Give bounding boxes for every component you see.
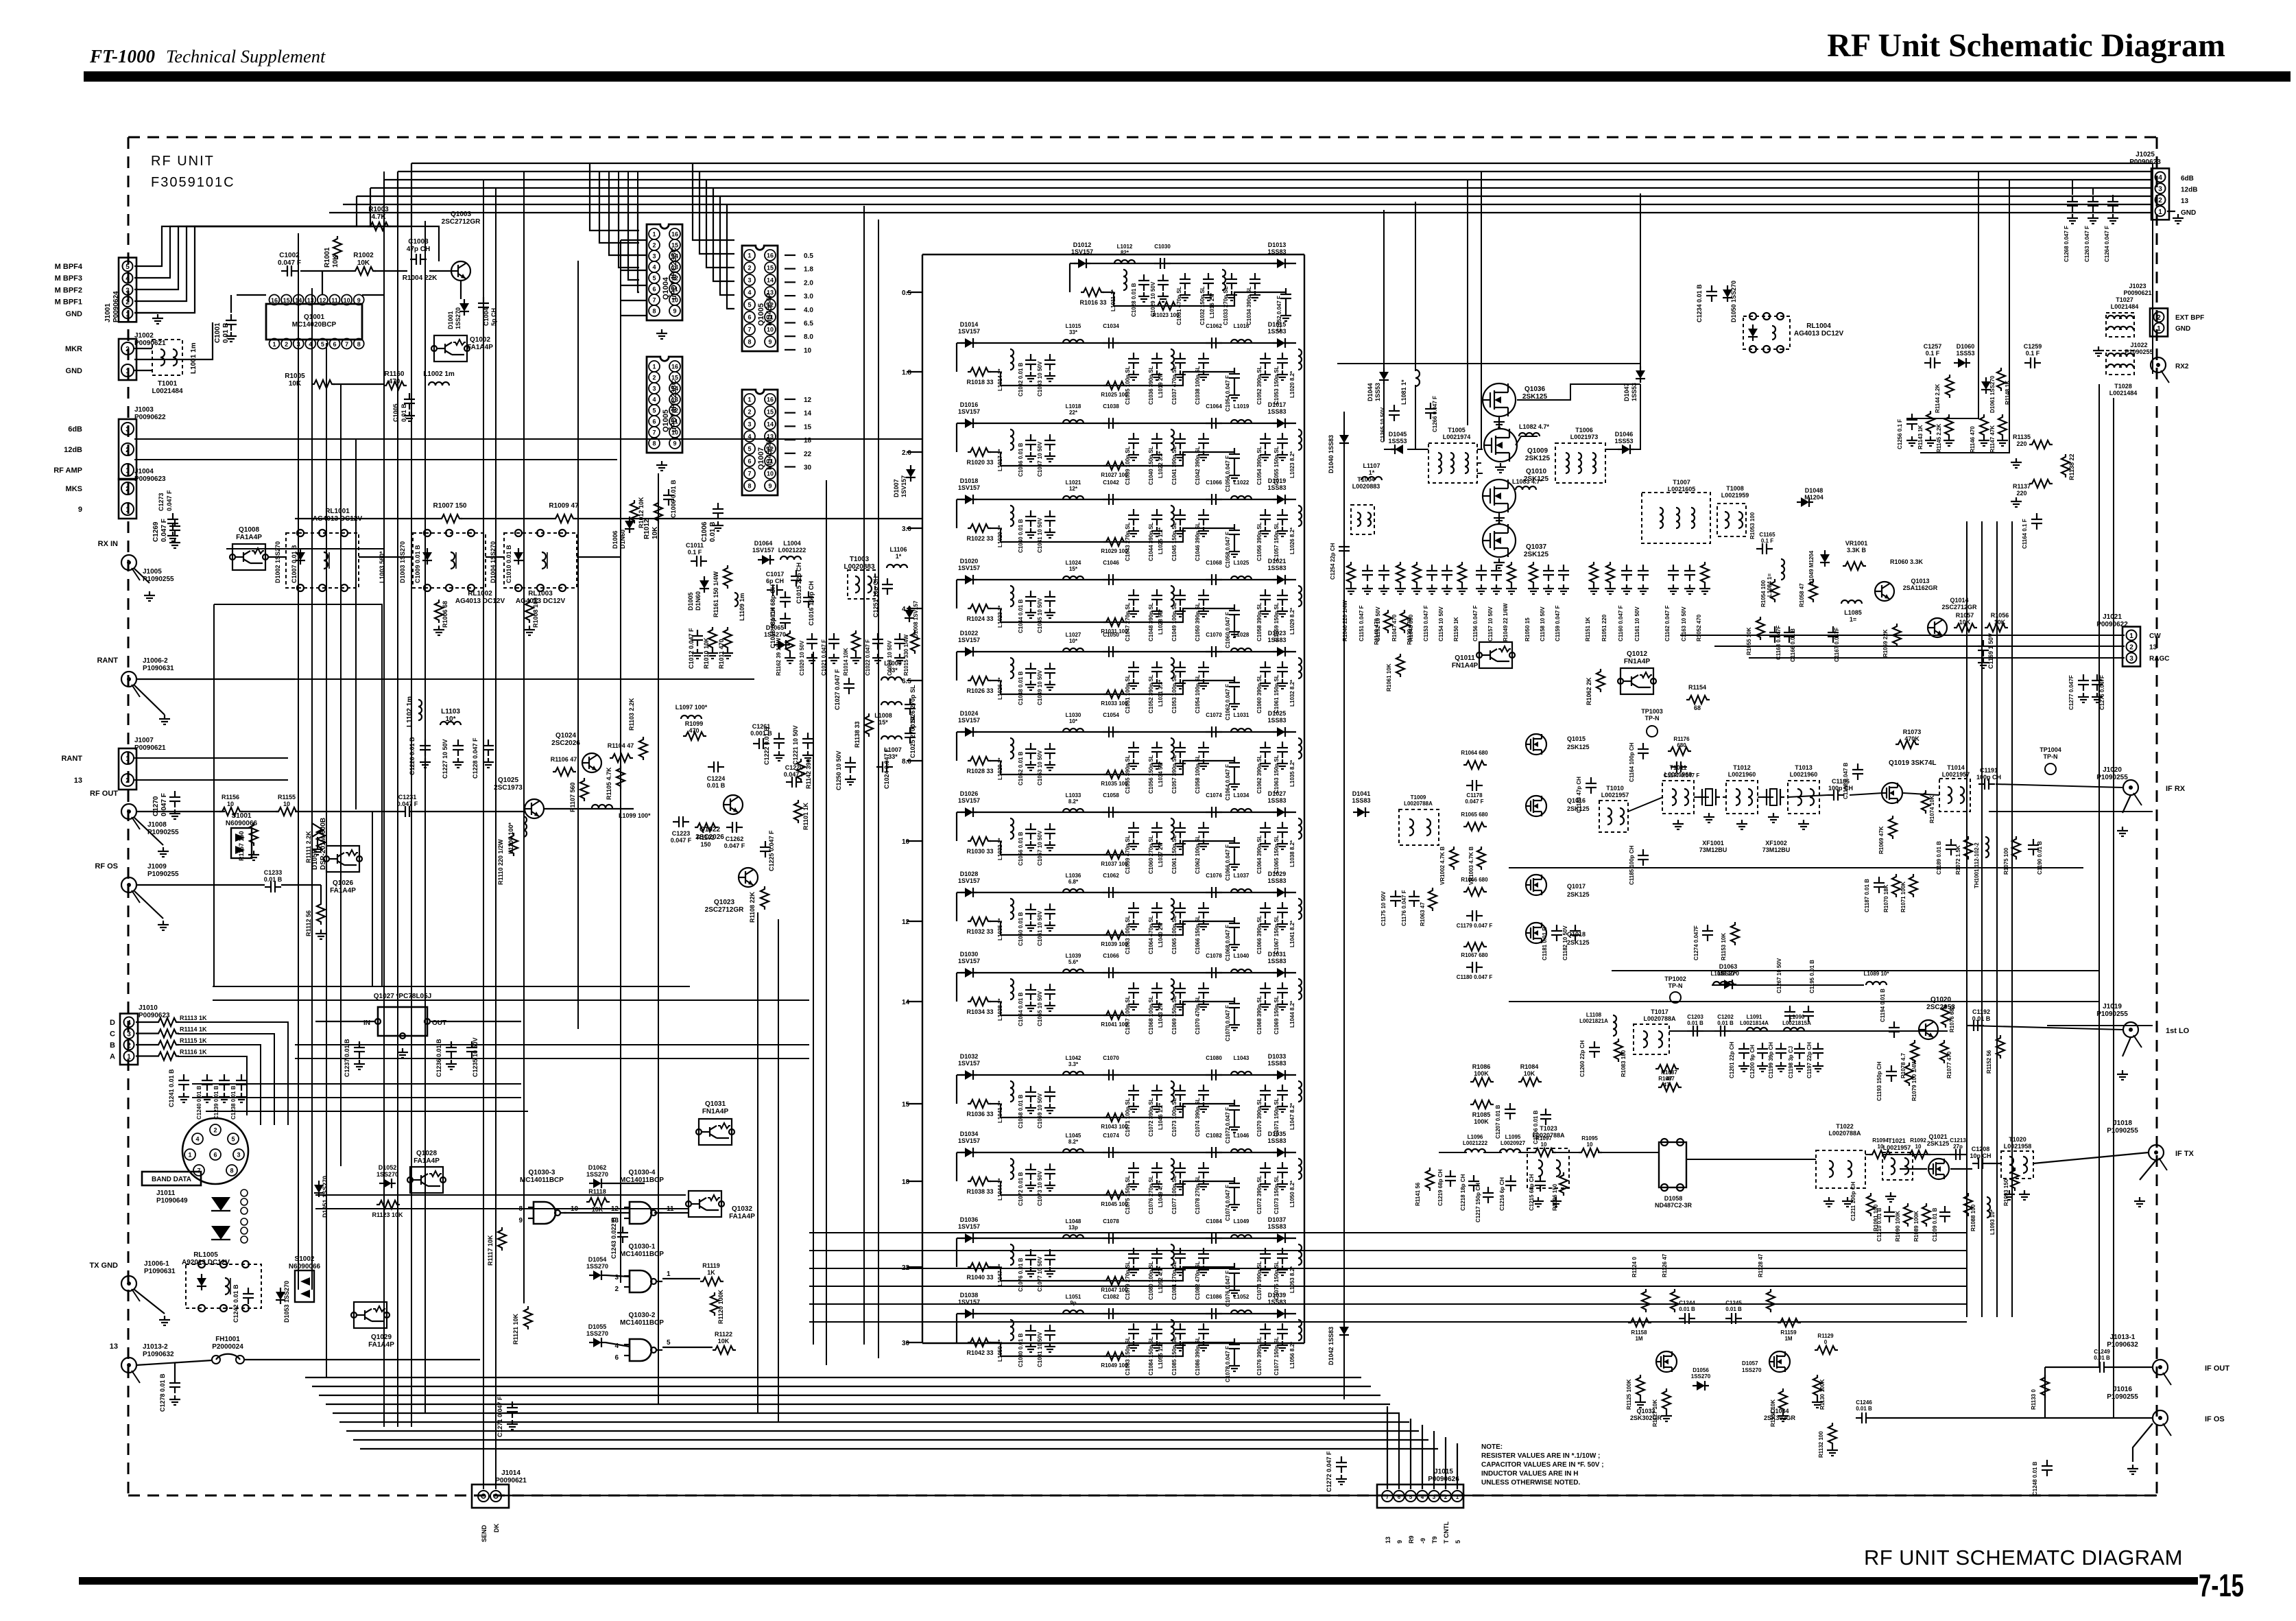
svg-text:R1049 22 1/6W: R1049 22 1/6W (1503, 603, 1509, 641)
svg-text:C1244: C1244 (1679, 1300, 1695, 1306)
svg-text:C1072: C1072 (1206, 712, 1222, 718)
svg-text:3.3*: 3.3* (1068, 1061, 1079, 1067)
svg-text:R1102: R1102 (697, 834, 715, 841)
svg-text:1: 1 (125, 467, 130, 475)
svg-text:D1055: D1055 (588, 1323, 607, 1330)
svg-text:7: 7 (1386, 1494, 1389, 1500)
svg-text:C1016 150p CH: C1016 150p CH (808, 581, 815, 626)
svg-text:R1113 1K: R1113 1K (180, 1015, 207, 1021)
svg-text:R1060 3.3K: R1060 3.3K (1890, 558, 1924, 565)
svg-text:6: 6 (333, 341, 336, 348)
svg-text:J1014: J1014 (501, 1469, 521, 1477)
svg-text:2: 2 (652, 375, 656, 381)
svg-text:M BPF1: M BPF1 (55, 298, 82, 307)
svg-text:1SV157: 1SV157 (958, 958, 980, 965)
svg-text:4: 4 (652, 397, 656, 403)
svg-text:0.047 F: 0.047 F (784, 771, 805, 778)
svg-text:R1061 10K: R1061 10K (1386, 663, 1392, 691)
svg-text:L1096: L1096 (1468, 1134, 1483, 1140)
svg-text:2SK125: 2SK125 (1524, 551, 1549, 558)
svg-text:GND: GND (66, 367, 83, 375)
svg-text:L0021814A: L0021814A (1740, 1020, 1769, 1026)
svg-text:L0021821A: L0021821A (1579, 1018, 1608, 1024)
svg-text:10: 10 (227, 801, 234, 807)
svg-text:R1046 220 1/4W: R1046 220 1/4W (1342, 600, 1348, 641)
svg-text:4: 4 (1421, 1494, 1424, 1500)
svg-text:1: 1 (127, 1054, 131, 1061)
svg-text:FN1A4P: FN1A4P (1624, 658, 1651, 665)
svg-text:C1058: C1058 (1103, 792, 1119, 798)
svg-text:0.01 B: 0.01 B (1687, 1020, 1703, 1026)
svg-text:R1070 18K: R1070 18K (1883, 884, 1889, 912)
svg-text:R1062 2K: R1062 2K (1586, 677, 1592, 705)
svg-text:3: 3 (127, 1031, 131, 1039)
svg-text:R1035 100: R1035 100 (1101, 781, 1128, 787)
svg-text:C1243 0.022 B: C1243 0.022 B (610, 1217, 617, 1259)
svg-text:R1032 33: R1032 33 (966, 928, 993, 935)
svg-text:4: 4 (652, 264, 656, 271)
svg-text:T1021: T1021 (1888, 1137, 1906, 1144)
svg-text:D1017: D1017 (1268, 401, 1287, 408)
svg-text:Q1036: Q1036 (1524, 386, 1545, 393)
svg-text:2: 2 (2129, 644, 2133, 652)
svg-text:L1033: L1033 (1066, 792, 1081, 798)
svg-text:C1058 0.047 F: C1058 0.047 F (1225, 532, 1231, 568)
svg-text:2.0: 2.0 (902, 449, 911, 457)
svg-text:P0090622: P0090622 (134, 414, 166, 421)
svg-text:L1106: L1106 (889, 546, 907, 553)
svg-text:R1103 2.2K: R1103 2.2K (628, 698, 635, 731)
svg-text:47p CH: 47p CH (407, 246, 430, 253)
svg-text:T1017: T1017 (1651, 1008, 1669, 1015)
svg-text:13: 13 (307, 297, 314, 304)
svg-text:MS4564P: MS4564P (765, 437, 774, 470)
svg-text:R1110 220 1/2W: R1110 220 1/2W (497, 839, 504, 885)
svg-text:R1018 33: R1018 33 (966, 379, 993, 386)
svg-text:L0020788A: L0020788A (1643, 1015, 1676, 1022)
svg-text:C1053 10 50V: C1053 10 50V (1037, 750, 1043, 785)
svg-text:4: 4 (748, 289, 751, 296)
svg-text:C1070: C1070 (1206, 632, 1222, 638)
svg-text:C1033 10 50V: C1033 10 50V (1037, 361, 1043, 397)
svg-text:L0021957: L0021957 (1942, 771, 1970, 778)
svg-text:C1235 10 50V: C1235 10 50V (472, 1037, 479, 1077)
svg-text:R1085: R1085 (1472, 1111, 1491, 1118)
svg-text:C1048 0.01 B: C1048 0.01 B (1018, 671, 1024, 705)
svg-text:D1041: D1041 (1352, 790, 1371, 797)
svg-text:1*: 1* (1369, 469, 1375, 476)
svg-text:C1042: C1042 (1103, 480, 1119, 486)
svg-text:L1031: L1031 (1234, 712, 1249, 718)
svg-text:C1050: C1050 (1103, 632, 1119, 638)
svg-text:C1068 390p SL: C1068 390p SL (1256, 995, 1263, 1034)
svg-text:C1015 22p CH: C1015 22p CH (796, 563, 802, 604)
svg-text:1: 1 (125, 311, 130, 318)
svg-text:8: 8 (230, 1168, 233, 1174)
svg-text:6dB: 6dB (2181, 175, 2194, 182)
svg-text:1SS83: 1SS83 (1267, 958, 1286, 965)
svg-text:C1168 0.047F: C1168 0.047F (1775, 626, 1782, 660)
svg-text:R1126 47: R1126 47 (1662, 1253, 1668, 1277)
svg-text:C1259: C1259 (2024, 343, 2042, 350)
svg-text:C1220: C1220 (785, 764, 804, 771)
svg-text:C: C (110, 1030, 115, 1039)
svg-text:D1002 1SS270: D1002 1SS270 (274, 541, 281, 583)
svg-text:C1061 10 50V: C1061 10 50V (1037, 910, 1043, 946)
svg-text:D1022: D1022 (960, 630, 979, 637)
svg-text:2: 2 (125, 299, 130, 307)
svg-text:68: 68 (1694, 705, 1701, 711)
svg-text:C1239 0.01 B: C1239 0.01 B (213, 1085, 219, 1120)
svg-text:C1070 0.047 F: C1070 0.047 F (1225, 1005, 1231, 1041)
svg-text:C1187 0.01 B: C1187 0.01 B (1864, 879, 1870, 912)
svg-text:33*: 33* (1069, 329, 1078, 335)
svg-text:C1269: C1269 (152, 521, 160, 542)
svg-text:L1019: L1019 (1234, 403, 1249, 410)
svg-text:J1009: J1009 (147, 863, 167, 871)
svg-text:R1074 10K: R1074 10K (1929, 795, 1935, 823)
svg-text:6dB: 6dB (68, 425, 82, 434)
svg-text:1SS83: 1SS83 (1267, 877, 1286, 884)
svg-text:L0021957: L0021957 (1883, 1144, 1911, 1151)
svg-text:R1092: R1092 (1910, 1137, 1926, 1144)
svg-text:L1085: L1085 (1844, 609, 1862, 616)
svg-text:D1021: D1021 (1268, 558, 1287, 565)
svg-text:C1262: C1262 (726, 836, 744, 842)
svg-text:3: 3 (125, 426, 130, 434)
svg-text:Q1004: Q1004 (662, 276, 670, 300)
svg-text:MS4564P: MS4564P (765, 293, 774, 326)
svg-text:L1016: L1016 (1234, 323, 1249, 329)
svg-text:L0021973: L0021973 (1570, 434, 1599, 440)
svg-text:R1039 100: R1039 100 (1101, 941, 1128, 947)
svg-text:1: 1 (748, 397, 751, 403)
svg-text:C1278 0.01 B: C1278 0.01 B (159, 1373, 166, 1412)
svg-text:C1076 0.047 F: C1076 0.047 F (1225, 1270, 1231, 1307)
svg-text:7: 7 (652, 297, 656, 304)
svg-text:C1053 150p SL: C1053 150p SL (1273, 366, 1280, 405)
svg-text:R1119: R1119 (702, 1262, 720, 1269)
svg-text:R1023 100: R1023 100 (1152, 312, 1180, 318)
svg-text:T1023: T1023 (1540, 1125, 1557, 1132)
svg-text:R1099: R1099 (685, 720, 704, 727)
svg-text:R1158: R1158 (1631, 1329, 1647, 1336)
svg-text:2: 2 (125, 777, 130, 785)
svg-text:1SV157: 1SV157 (958, 484, 980, 491)
svg-text:2SC2712GR: 2SC2712GR (705, 906, 744, 914)
svg-text:D1046: D1046 (1615, 431, 1634, 438)
svg-text:C1067 150p SL: C1067 150p SL (1273, 915, 1280, 954)
svg-text:GND: GND (2175, 325, 2190, 333)
svg-text:J1015: J1015 (1434, 1468, 1453, 1476)
svg-text:C1250 10 50V: C1250 10 50V (835, 750, 842, 790)
svg-text:T1006: T1006 (1575, 427, 1593, 434)
svg-text:L1020 8.2*: L1020 8.2* (1289, 370, 1295, 398)
svg-text:F3059101C: F3059101C (151, 175, 235, 190)
svg-text:47: 47 (1666, 1076, 1673, 1082)
svg-text:0: 0 (1824, 1339, 1828, 1345)
svg-text:3: 3 (2158, 186, 2162, 193)
svg-text:R1146 470: R1146 470 (1970, 426, 1976, 453)
svg-text:L1053 8.2*: L1053 8.2* (1289, 1266, 1295, 1293)
svg-text:8: 8 (357, 341, 361, 348)
svg-text:D1053 1SS270: D1053 1SS270 (283, 1281, 290, 1323)
svg-text:12: 12 (319, 297, 326, 304)
svg-text:Q1029: Q1029 (371, 1334, 392, 1341)
svg-text:RL1005: RL1005 (193, 1251, 218, 1259)
svg-text:D1062: D1062 (588, 1164, 607, 1171)
svg-text:FA1A4P: FA1A4P (236, 534, 262, 541)
svg-text:AG4013 DC12V: AG4013 DC12V (455, 597, 505, 605)
svg-text:B: B (110, 1041, 115, 1050)
svg-text:R1075 100: R1075 100 (2003, 847, 2009, 875)
svg-text:RL1004: RL1004 (1806, 322, 1831, 330)
svg-text:C1177 0.047 F: C1177 0.047 F (1664, 772, 1700, 779)
svg-text:R1133 0: R1133 0 (2031, 1389, 2037, 1410)
svg-text:C1044 0.01 B: C1044 0.01 B (1018, 599, 1024, 633)
svg-text:R1108 22K: R1108 22K (749, 891, 756, 923)
svg-text:16: 16 (767, 397, 774, 403)
svg-text:2SA1162GR: 2SA1162GR (1903, 584, 1938, 591)
svg-text:L1045: L1045 (1066, 1133, 1081, 1139)
svg-text:3: 3 (748, 277, 751, 284)
svg-text:9: 9 (673, 440, 676, 447)
svg-text:IN: IN (363, 1019, 370, 1027)
svg-text:D1037: D1037 (1268, 1216, 1287, 1223)
svg-text:J1019: J1019 (2103, 1003, 2122, 1010)
svg-text:D1023: D1023 (1268, 630, 1287, 637)
svg-text:R1089 100K: R1089 100K (1913, 1211, 1920, 1242)
svg-text:C1231: C1231 (398, 794, 417, 801)
svg-text:0.5: 0.5 (804, 252, 813, 260)
svg-text:P0090621: P0090621 (495, 1477, 527, 1484)
svg-text:470K: 470K (1904, 735, 1920, 742)
svg-text:C1260 22p CH: C1260 22p CH (1579, 1040, 1586, 1077)
svg-text:1SV157: 1SV157 (958, 637, 980, 643)
svg-text:L1034: L1034 (1234, 792, 1249, 798)
svg-text:R1141 56: R1141 56 (1415, 1182, 1421, 1206)
svg-text:D1064: D1064 (754, 540, 773, 547)
svg-text:AG4013 DC12V: AG4013 DC12V (516, 597, 566, 605)
svg-text:P0090623: P0090623 (134, 475, 166, 483)
svg-text:T1014: T1014 (1947, 764, 1965, 771)
svg-text:D1038: D1038 (960, 1292, 979, 1299)
svg-text:L0020788A: L0020788A (1828, 1130, 1861, 1137)
svg-text:D1018: D1018 (960, 477, 979, 484)
svg-text:10: 10 (804, 347, 812, 355)
svg-text:D1016: D1016 (960, 401, 979, 408)
svg-text:P2000024: P2000024 (212, 1343, 243, 1351)
svg-text:C1080 0.01 B: C1080 0.01 B (1018, 1333, 1024, 1367)
svg-text:RESISTER VALUES ARE IN *.1/10: RESISTER VALUES ARE IN *.1/10W ; (1481, 1452, 1600, 1460)
svg-text:C1166 0.01 B: C1166 0.01 B (1790, 628, 1796, 662)
svg-text:2SK125: 2SK125 (1525, 455, 1551, 462)
svg-text:R1069 47K: R1069 47K (1878, 826, 1885, 854)
svg-text:R1143 1K: R1143 1K (1917, 425, 1924, 449)
svg-text:1SS83: 1SS83 (1267, 484, 1286, 491)
svg-text:C1245: C1245 (1725, 1300, 1742, 1306)
svg-text:P0090624: P0090624 (112, 291, 120, 322)
svg-text:2SK125: 2SK125 (1927, 1140, 1950, 1147)
svg-text:L1032 8.2*: L1032 8.2* (1289, 679, 1295, 707)
svg-text:C1167 0.047F: C1167 0.047F (1834, 628, 1840, 662)
svg-text:R1124 0: R1124 0 (1631, 1257, 1638, 1277)
svg-text:1: 1 (188, 1152, 191, 1159)
svg-text:1SV157: 1SV157 (958, 1137, 980, 1144)
svg-text:L1024: L1024 (1066, 560, 1081, 566)
svg-text:R1114 1K: R1114 1K (180, 1026, 207, 1033)
svg-text:MC14011BCP: MC14011BCP (620, 1251, 664, 1258)
svg-text:L1083 4.7*: L1083 4.7* (1512, 478, 1543, 485)
svg-text:10: 10 (902, 838, 910, 846)
svg-text:T1001: T1001 (158, 380, 178, 388)
svg-text:15: 15 (804, 423, 812, 431)
svg-text:L1109 1m: L1109 1m (739, 593, 745, 621)
svg-text:RAGC: RAGC (2149, 655, 2169, 663)
svg-text:C1159 0.047 F: C1159 0.047 F (1555, 605, 1561, 641)
svg-text:C1077 150p SL: C1077 150p SL (1273, 1336, 1280, 1375)
svg-text:R1160: R1160 (385, 370, 405, 378)
svg-text:C1012 0.047 F: C1012 0.047 F (688, 628, 695, 669)
svg-text:R1079 100 1/4W: R1079 100 1/4W (1911, 1060, 1917, 1101)
svg-text:2: 2 (614, 1286, 619, 1293)
svg-text:C1078: C1078 (1103, 1218, 1119, 1224)
svg-text:C1210 0.01 B: C1210 0.01 B (1876, 1207, 1882, 1242)
svg-text:J1020: J1020 (2103, 766, 2122, 774)
svg-text:RF AMP: RF AMP (53, 466, 82, 475)
svg-text:100K: 100K (1474, 1118, 1489, 1125)
svg-text:12dB: 12dB (2181, 187, 2197, 194)
svg-text:D1056: D1056 (1693, 1367, 1709, 1373)
svg-text:N6090066: N6090066 (289, 1263, 321, 1270)
svg-text:D1N60: D1N60 (619, 530, 626, 549)
svg-text:P1090632: P1090632 (143, 1351, 174, 1358)
svg-text:1SV157: 1SV157 (958, 408, 980, 415)
svg-text:D1015: D1015 (1268, 321, 1287, 328)
svg-text:RX IN: RX IN (98, 540, 118, 548)
svg-text:P0090621: P0090621 (2123, 289, 2151, 296)
svg-text:9p: 9p (1070, 1300, 1076, 1306)
svg-text:L1103: L1103 (441, 708, 460, 715)
svg-text:C1082: C1082 (1103, 1294, 1119, 1300)
svg-text:R1117 10K: R1117 10K (487, 1235, 494, 1266)
svg-text:C1151 0.047 F: C1151 0.047 F (1359, 605, 1365, 641)
svg-text:9: 9 (78, 506, 82, 514)
svg-text:R1125 100K: R1125 100K (1626, 1379, 1632, 1410)
svg-text:10*: 10* (445, 715, 455, 723)
svg-text:Q1024: Q1024 (555, 732, 576, 739)
svg-text:L0021960: L0021960 (1790, 771, 1818, 778)
svg-text:C1070 390p SL: C1070 390p SL (1256, 1098, 1263, 1137)
svg-text:16: 16 (271, 297, 278, 304)
svg-text:C1052 390p SL: C1052 390p SL (1256, 366, 1263, 405)
svg-text:R1047 100: R1047 100 (1101, 1287, 1128, 1293)
svg-text:J1006-2: J1006-2 (143, 657, 168, 665)
svg-text:R1041 100: R1041 100 (1101, 1021, 1128, 1028)
svg-text:15: 15 (902, 1101, 910, 1109)
svg-text:4: 4 (125, 275, 130, 283)
svg-text:2: 2 (127, 1042, 131, 1050)
svg-text:30: 30 (804, 464, 812, 472)
svg-text:L1009: L1009 (884, 660, 902, 667)
svg-text:1: 1 (2158, 209, 2162, 216)
svg-text:P1090255: P1090255 (2125, 348, 2153, 355)
svg-text:J1004: J1004 (134, 468, 154, 475)
svg-text:P1090255: P1090255 (2107, 1127, 2138, 1135)
svg-text:L1095: L1095 (1505, 1134, 1521, 1140)
svg-text:6: 6 (213, 1152, 217, 1159)
svg-text:0.047 F: 0.047 F (397, 801, 418, 807)
svg-text:L0021484: L0021484 (2111, 303, 2139, 310)
svg-text:C1266 0.047 F: C1266 0.047 F (1432, 396, 1438, 432)
svg-text:L1081 1*: L1081 1* (1400, 379, 1407, 405)
svg-text:1SS270: 1SS270 (455, 307, 462, 329)
svg-text:R1053 100: R1053 100 (1749, 512, 1756, 539)
svg-text:8.2*: 8.2* (1068, 798, 1079, 805)
svg-text:C1273: C1273 (158, 493, 165, 511)
svg-text:C1084: C1084 (1206, 1218, 1222, 1224)
svg-text:220: 220 (2016, 440, 2026, 447)
svg-text:R1037 100: R1037 100 (1101, 861, 1128, 867)
svg-text:C1061 150p SL: C1061 150p SL (1273, 674, 1280, 713)
svg-text:7: 7 (345, 341, 348, 348)
svg-text:D1060: D1060 (1957, 343, 1975, 350)
svg-text:5: 5 (652, 407, 656, 414)
svg-text:L1108: L1108 (1586, 1012, 1602, 1018)
svg-text:C1225 0.047 F: C1225 0.047 F (768, 830, 775, 871)
svg-text:Q1015: Q1015 (1567, 735, 1586, 742)
svg-text:RL1001: RL1001 (325, 508, 350, 515)
svg-text:C1249: C1249 (2094, 1349, 2110, 1355)
svg-text:L1099 100*: L1099 100* (619, 812, 651, 819)
svg-text:Q1005: Q1005 (662, 410, 670, 432)
svg-text:C1009 0.01 B: C1009 0.01 B (414, 545, 421, 583)
svg-text:5: 5 (1409, 1494, 1413, 1500)
svg-text:R1129: R1129 (1817, 1333, 1834, 1339)
svg-text:M BPF3: M BPF3 (55, 274, 82, 283)
svg-text:1: 1 (2129, 632, 2133, 640)
svg-text:R1034 33: R1034 33 (966, 1008, 993, 1015)
svg-text:L1015: L1015 (1066, 323, 1081, 329)
svg-text:RL1003: RL1003 (528, 590, 553, 597)
svg-text:J1016: J1016 (2113, 1386, 2132, 1393)
svg-text:C1066: C1066 (1103, 953, 1119, 959)
svg-text:1SS83: 1SS83 (1267, 1060, 1286, 1067)
svg-text:1SS53: 1SS53 (1388, 438, 1407, 445)
svg-text:CAPACITOR VALUES ARE IN *F. 50: CAPACITOR VALUES ARE IN *F. 50V ; (1481, 1461, 1604, 1469)
svg-text:0.1 F: 0.1 F (1761, 538, 1773, 544)
svg-text:1SV157: 1SV157 (752, 547, 774, 554)
svg-text:2: 2 (1444, 1494, 1448, 1500)
svg-text:1SS53: 1SS53 (1374, 383, 1381, 401)
svg-text:Q1021: Q1021 (1928, 1133, 1947, 1140)
svg-text:C1188 0.047 B: C1188 0.047 B (1843, 762, 1849, 799)
svg-text:R1059 22K: R1059 22K (1882, 629, 1889, 657)
svg-text:5: 5 (125, 263, 130, 271)
svg-text:R1014 10K: R1014 10K (843, 648, 849, 676)
svg-text:3.3K B: 3.3K B (1847, 547, 1867, 554)
svg-text:6: 6 (652, 418, 656, 425)
svg-text:L1023 8.2*: L1023 8.2* (1289, 451, 1295, 478)
svg-text:R1151 1K: R1151 1K (1585, 617, 1591, 641)
svg-text:uPD74HC238C: uPD74HC238C (670, 380, 678, 432)
svg-text:RANT: RANT (61, 755, 82, 763)
svg-text:R1111 2.2K: R1111 2.2K (305, 831, 312, 863)
svg-text:1SS270: 1SS270 (586, 1171, 608, 1178)
svg-text:D1063: D1063 (1719, 963, 1738, 970)
svg-text:C1056 390p SL: C1056 390p SL (1256, 522, 1263, 561)
svg-text:10: 10 (1587, 1141, 1593, 1148)
